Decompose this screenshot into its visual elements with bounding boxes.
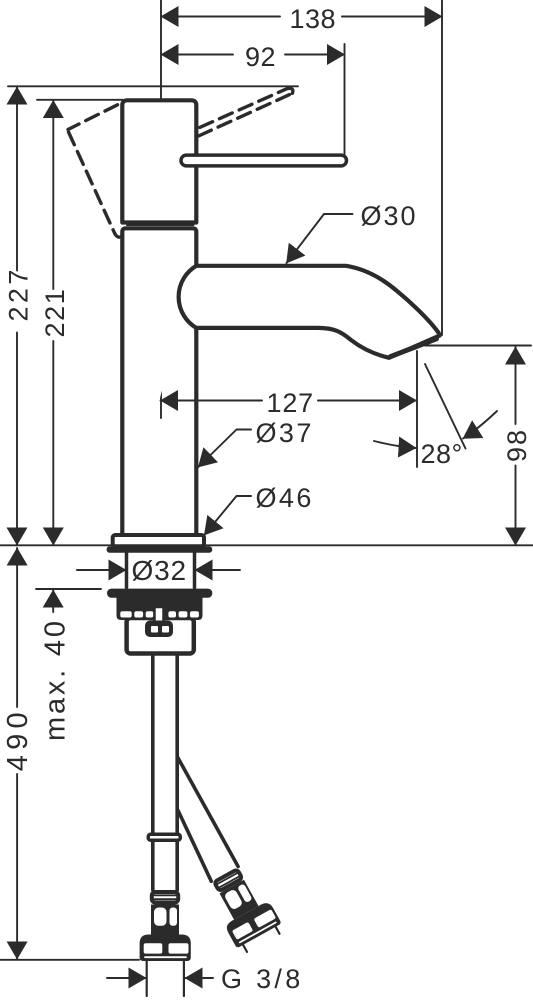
svg-text:Ø30: Ø30 xyxy=(361,201,418,231)
svg-text:max. 40: max. 40 xyxy=(39,618,71,741)
node: crimp collar 2 xyxy=(214,869,242,891)
wire: 98 top extension line xyxy=(425,345,531,347)
node: threaded shank xyxy=(125,553,129,588)
node: base flange xyxy=(113,535,204,546)
wire: leader for O37 xyxy=(198,430,251,468)
dimension 92 xyxy=(161,54,233,56)
node: pull rod channel xyxy=(155,607,164,624)
node: O32 white backing xyxy=(130,554,190,584)
node: vertical supply pipe xyxy=(153,654,177,891)
node: mounting nut xyxy=(117,598,203,621)
dimension 490 vertical xyxy=(16,548,18,707)
svg-text:127: 127 xyxy=(267,388,314,418)
node: lower body section (right edge interrupted by spout) xyxy=(122,228,196,535)
dimension 227 vertical xyxy=(16,87,18,271)
lever rod xyxy=(181,155,347,166)
svg-text:227: 227 xyxy=(4,266,34,321)
svg-text:490: 490 xyxy=(2,707,34,771)
node: connection nut 2 xyxy=(224,900,282,948)
node: 28 degree angle line xyxy=(425,364,466,449)
node: clamp block xyxy=(127,618,194,654)
dimension G3/8 xyxy=(107,977,146,979)
node: pipe collar xyxy=(148,834,180,840)
wire: 221 top extension line xyxy=(37,99,123,101)
dimension O32 leaders xyxy=(77,569,126,571)
node: aerator face xyxy=(391,339,437,357)
node: hex body 2 xyxy=(219,880,258,920)
node: vertical hose fitting xyxy=(140,892,191,996)
wire: right extension line (138) xyxy=(441,0,443,335)
svg-text:Ø32: Ø32 xyxy=(132,555,187,586)
dimension 138 xyxy=(161,16,280,18)
node: crimp collar xyxy=(152,892,178,903)
wire: 227 top extension line xyxy=(8,85,298,87)
wire: center axis extension line xyxy=(160,0,162,145)
wire: 28deg curved leader arrow xyxy=(463,411,497,439)
wire: 28deg small right-pointing leader arrow xyxy=(374,441,416,448)
wire: lever-end extension line xyxy=(344,44,346,154)
dashed lever side position xyxy=(68,105,122,237)
svg-text:Ø37: Ø37 xyxy=(256,418,314,448)
node: pull rod clip xyxy=(147,623,171,636)
node: joint thin line xyxy=(127,224,194,226)
wire: 127 left extension (axis) xyxy=(160,352,162,418)
node: flange bottom seal xyxy=(107,546,213,553)
wire: leader for O46 xyxy=(204,496,251,535)
wire: bottom reference line xyxy=(0,959,139,961)
node: connection nut xyxy=(140,935,191,962)
svg-text:28°: 28° xyxy=(421,439,463,469)
svg-text:221: 221 xyxy=(40,288,70,338)
node: diagonal hose fitting xyxy=(203,863,285,955)
dashed lever raised position xyxy=(199,88,293,136)
svg-text:92: 92 xyxy=(245,42,276,72)
dimension 98 vertical xyxy=(515,347,517,424)
wire: max40 extension line (washer top) xyxy=(36,588,101,590)
svg-text:Ø46: Ø46 xyxy=(256,483,314,513)
svg-text:138: 138 xyxy=(290,4,337,34)
node: handle top section xyxy=(122,100,196,222)
faucet body column xyxy=(122,100,196,535)
node: washer xyxy=(107,589,212,598)
dimension 221 vertical xyxy=(52,101,54,290)
node: mounting surface line xyxy=(0,544,533,546)
svg-text:G 3/8: G 3/8 xyxy=(221,964,304,994)
node: stub 2 xyxy=(243,945,247,952)
node: diagonal hose xyxy=(178,757,239,881)
dimension max40 arrow xyxy=(52,590,54,612)
node: threaded stub G3/8 xyxy=(146,961,148,996)
spout xyxy=(179,266,440,358)
wire: spout tip extension line xyxy=(416,351,418,467)
svg-text:98: 98 xyxy=(502,428,532,462)
wire: leader for O30 xyxy=(287,214,353,263)
dimension 127 xyxy=(161,400,263,402)
node: hex body xyxy=(151,905,179,935)
